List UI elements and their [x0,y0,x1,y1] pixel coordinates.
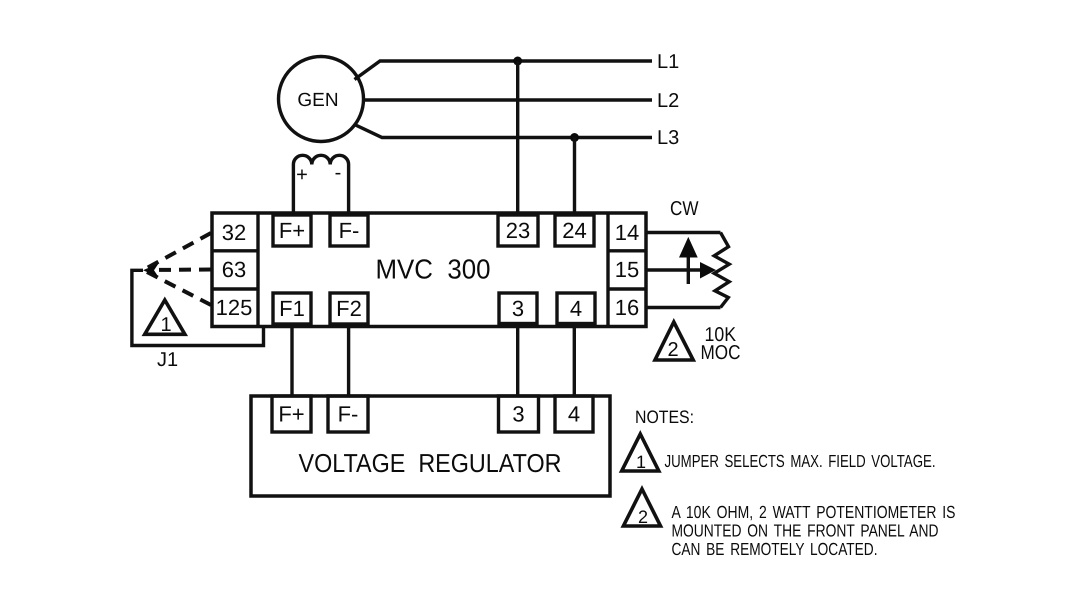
regulator terminal F+ [272,396,311,432]
terminal F+ top [273,215,311,246]
terminal 15 [608,257,646,289]
svg-text:4: 4 [570,296,582,321]
regulator terminal 4 [555,396,593,432]
svg-text:23: 23 [506,218,530,243]
CW rotation arrow [679,237,698,284]
svg-text:125: 125 [216,295,253,320]
svg-text:3: 3 [512,296,524,321]
svg-text:NOTES:: NOTES: [635,407,694,427]
svg-text:CAN BE REMOTELY LOCATED.: CAN BE REMOTELY LOCATED. [672,539,878,559]
jumper dashed wire to 32 [147,233,211,268]
svg-text:J1: J1 [157,349,178,371]
svg-text:+: + [296,164,308,186]
svg-text:F-: F- [339,218,360,243]
svg-text:14: 14 [615,220,639,245]
svg-text:L1: L1 [657,51,679,73]
terminal 23 [498,215,538,246]
svg-text:F-: F- [338,402,359,427]
terminal F2 [330,293,368,324]
voltage regulator box [251,396,610,496]
svg-text:2: 2 [667,339,678,361]
svg-text:F+: F+ [278,402,304,427]
MVC 300 module box [212,213,646,327]
note flag triangle 1 at J1 [145,300,185,336]
terminal column wall right [606,213,609,327]
label 10K MOC [701,324,741,364]
wire terminal 15 to wiper [646,268,701,271]
svg-text:CW: CW [670,198,699,220]
svg-text:4: 4 [568,402,580,427]
wire L1 to terminal 23 [516,61,519,215]
terminal 3 MVC [499,293,537,324]
svg-text:16: 16 [615,295,639,320]
note flag triangle 2 [623,489,660,527]
svg-text:L3: L3 [657,127,679,149]
junction dot on L1 [513,57,522,66]
svg-text:32: 32 [222,220,246,245]
svg-text:VOLTAGE REGULATOR: VOLTAGE REGULATOR [299,448,562,478]
terminal 63 [212,257,258,289]
note flag triangle 2 at potentiometer [655,322,693,361]
terminal 32 [212,220,258,251]
svg-text:MOUNTED ON THE FRONT PANEL AND: MOUNTED ON THE FRONT PANEL AND [672,521,939,541]
terminal column wall left [256,213,259,327]
svg-text:F+: F+ [279,218,305,243]
jumper dashed wire to 125 [147,272,211,305]
svg-text:1: 1 [160,314,171,336]
note flag triangle 1 [622,434,659,472]
svg-text:24: 24 [562,218,586,243]
wire 3 to regulator 3 [516,324,519,398]
jumper arrowhead [143,264,159,278]
regulator terminal 3 [499,396,539,432]
terminal F1 [273,293,311,324]
regulator terminal F- [328,396,368,432]
junction dot on L3 [570,133,579,142]
terminal 4 MVC [557,293,595,324]
wire L3 [355,125,653,138]
svg-text:F1: F1 [279,296,305,321]
wire F1 to regulator F+ [290,324,293,397]
svg-text:GEN: GEN [297,90,338,111]
terminal F- top [330,215,368,246]
svg-text:-: - [335,162,342,184]
svg-text:1: 1 [636,452,646,472]
svg-text:15: 15 [615,257,639,282]
svg-text:JUMPER SELECTS MAX. FIELD VOLT: JUMPER SELECTS MAX. FIELD VOLTAGE. [665,451,936,471]
generator GEN [279,57,364,142]
svg-text:A 10K OHM, 2 WATT POTENTIOMETE: A 10K OHM, 2 WATT POTENTIOMETER IS [672,502,956,522]
svg-text:63: 63 [222,257,246,282]
wire L3 to terminal 24 [573,138,576,216]
jumper dashed wire to 63 [150,268,211,273]
terminal 24 [555,215,594,246]
wire 4 to regulator 4 [573,324,576,398]
note 2 text [672,502,956,559]
svg-text:L2: L2 [657,90,679,112]
potentiometer wiper arrowhead [700,262,716,279]
svg-text:2: 2 [638,507,648,527]
inductor field coil [293,155,348,213]
wire L1 [355,61,653,80]
svg-text:3: 3 [512,402,524,427]
terminal 14 [608,220,646,251]
svg-text:MOC: MOC [701,342,741,364]
wire J1 bracket [132,270,264,345]
wire F2 to regulator F- [347,324,350,397]
wire terminal 14 to potentiometer top [646,231,721,234]
wire terminal 16 to potentiometer bottom [646,306,721,309]
wire L2 [364,98,653,101]
potentiometer R1 10K resistor body [714,233,729,308]
svg-text:MVC 300: MVC 300 [376,254,491,285]
svg-text:F2: F2 [336,296,362,321]
